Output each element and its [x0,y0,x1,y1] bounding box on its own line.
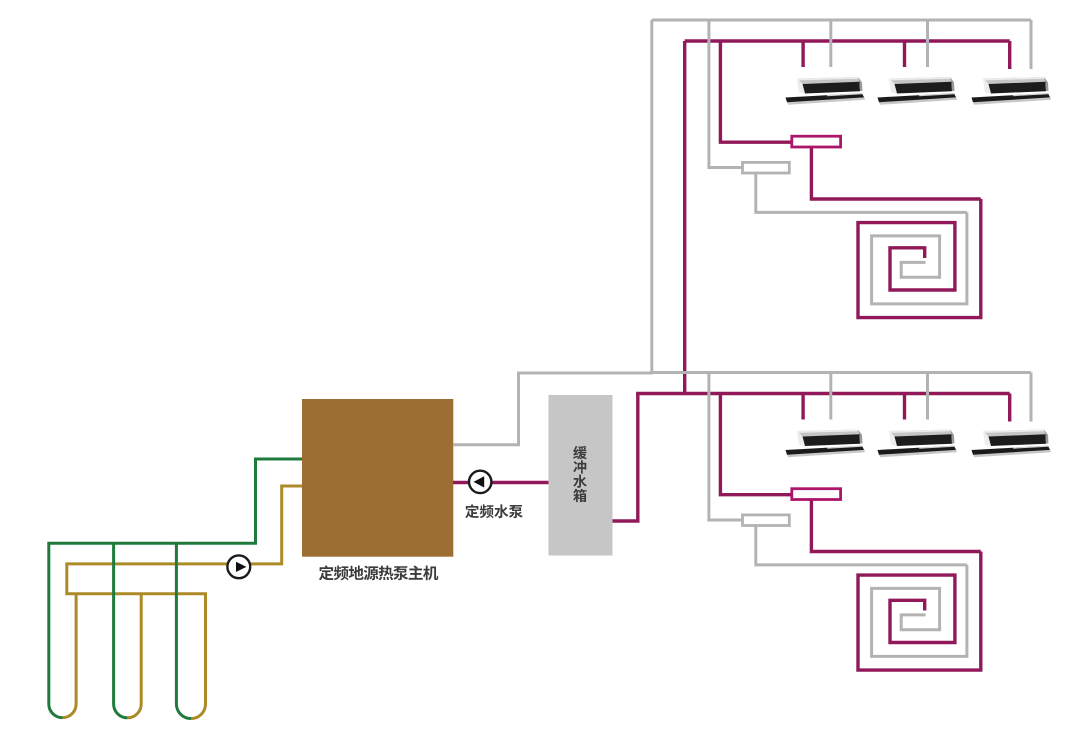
upper zone: gray floor-coil spiral [872,212,967,304]
lower zone: gray loop feed wire from manifold [756,526,967,565]
lower zone: magenta floor-coil spiral [858,552,981,671]
upper zone: fan coil unit 2 [878,77,958,105]
lower zone: magenta fan-coil drop wire 3 [1008,394,1011,422]
magenta wire heat pump to buffer tank [453,481,549,484]
lower zone: magenta fan-coil drop wire 2 [903,394,906,420]
magenta riser between headers [683,41,686,394]
gold return pipe from borefield to heat pump [67,486,302,704]
green supply pipe from heat pump to borefield [49,459,302,704]
U-bend 2 green half [114,704,128,718]
upper zone: fan coil unit 1 [786,77,866,105]
upper zone: gray wire drop to manifold [709,20,743,168]
lower zone: magenta loop feed wire from manifold [811,500,980,552]
lower zone: gray fan-coil drop wire 3 [1030,373,1033,422]
upper zone: gray loop feed wire from manifold [756,173,967,212]
U-bend 2 gold half [127,704,141,718]
upper zone: gray fan-coil drop wire 2 [926,20,929,67]
lower zone: gray fan-coil drop wire 1 [829,373,832,420]
heat pump main unit box [302,399,453,557]
circulation pump P2 [469,471,491,493]
lower zone: gray manifold [743,515,790,526]
lower zone: fan coil unit 1 [786,430,866,458]
label: fixed-speed pump [465,504,523,518]
lower zone: magenta wire drop to manifold [720,394,791,495]
lower zone: fan coil unit 3 [972,430,1052,458]
ground loop pump P1 [227,555,250,578]
lower zone: gray fan-coil drop wire 2 [926,373,929,420]
green borehole pipe 3 [175,543,178,704]
upper zone: magenta fan-coil drop wire 2 [903,41,906,67]
lower zone: magenta supply header wire [685,392,1010,395]
magenta wire buffer tank to lower header [613,394,638,522]
gray lower header left segment [517,372,653,375]
green borehole pipe 2 [112,543,115,704]
upper zone: magenta fan-coil drop wire 1 [801,41,804,67]
upper zone: magenta manifold [792,136,841,147]
upper zone: gray fan-coil drop wire 1 [829,20,832,67]
lower zone: gray supply header wire [652,371,1031,374]
label: buffer tank (vertical) [573,446,587,502]
upper zone: gray manifold [743,162,790,173]
lower zone group [652,373,1051,671]
label: heat pump main unit [319,565,438,580]
upper zone: magenta wire drop to manifold [720,41,791,142]
U-bend 1 gold half [62,704,76,718]
U-bend 3 gold half [191,704,206,719]
upper zone: magenta fan-coil drop wire 3 [1008,41,1011,69]
gold borehole pipe 2 [140,594,143,704]
upper zone: magenta floor-coil spiral [858,199,981,318]
lower zone: gray wire drop to manifold [709,373,743,521]
lower zone: magenta fan-coil drop wire 1 [801,394,804,420]
buffer tank [549,395,613,556]
lower zone: gray floor-coil spiral [872,565,967,657]
upper zone: gray supply header wire [652,19,1031,22]
magenta lower header left segment [636,392,686,395]
gold borehole pipe 1 [75,594,78,704]
U-bend 3 green half [176,704,191,719]
U-bend 1 green half [49,704,63,718]
upper zone: gray fan-coil drop wire 3 [1030,20,1033,69]
upper zone: fan coil unit 3 [972,77,1052,105]
lower zone: fan coil unit 2 [878,430,958,458]
upper zone: magenta loop feed wire from manifold [811,147,980,199]
upper zone: magenta supply header wire [685,39,1010,42]
lower zone: magenta manifold [792,489,841,500]
gray wire heat pump to riser [453,375,519,445]
gray riser between headers [650,20,653,374]
